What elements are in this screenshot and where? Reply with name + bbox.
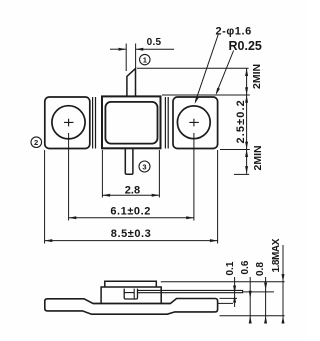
circled 2 — [31, 137, 42, 148]
svg-text:1.8MAX: 1.8MAX — [271, 238, 282, 272]
dim 0.1 vertical line — [234, 277, 236, 307]
dim 2MIN top vertical line — [246, 68, 248, 95]
ext flange center top short — [218, 302, 233, 304]
right flange plate — [173, 97, 218, 149]
dim 0.1 arrow down — [233, 286, 236, 294]
arrow up 2MIN bottom — [245, 149, 248, 157]
dim 0.6 arrow down — [249, 291, 252, 299]
svg-text:0.5: 0.5 — [147, 37, 162, 48]
dim 2.8 line — [102, 194, 159, 196]
dim 6.1 arrow left — [69, 216, 77, 219]
dim 8.5 line — [45, 240, 218, 242]
mounting hole left — [52, 106, 85, 139]
dim 8.5 arrow right — [210, 239, 218, 242]
mounting hole right — [177, 106, 210, 139]
svg-text:2.5±0.2: 2.5±0.2 — [235, 99, 247, 143]
side view lead 3 divider — [124, 289, 134, 299]
package mid body rect — [102, 96, 161, 148]
leader R0.25 — [217, 51, 234, 93]
side view cap lid — [105, 281, 157, 287]
dim 0.8 vertical line — [265, 277, 267, 320]
arrow down 2MIN bottom — [245, 166, 248, 174]
dim 0.8 arrow up — [264, 316, 267, 324]
dim 0.8 arrow down — [264, 283, 267, 291]
dim 1.8MAX arrow down — [282, 274, 285, 282]
side view lead 1 strip — [138, 290, 243, 292]
dim 2MIN bottom vertical line — [246, 149, 248, 174]
extension line flange bottom to right — [220, 149, 250, 151]
extension line lead width right — [135, 44, 137, 69]
arrow up 2.5 — [245, 95, 248, 103]
svg-text:2MIN: 2MIN — [251, 64, 263, 89]
extension line hole center right down — [193, 133, 195, 221]
ext cap top to right — [161, 281, 285, 283]
svg-text:6.1±0.2: 6.1±0.2 — [110, 206, 150, 218]
dim 6.1 line — [69, 217, 194, 219]
extension line flange top to right — [162, 94, 250, 96]
side view flange outline — [45, 299, 218, 315]
dim 2.8 arrow left — [102, 194, 110, 197]
left flange plate — [45, 97, 90, 149]
ext flange bottom to right — [220, 315, 285, 317]
dim 0.5 line right segment — [136, 48, 174, 50]
extension line bottom lead tip to right — [234, 173, 249, 175]
dim 0.5 arrow left — [119, 48, 127, 51]
extension line hole center left down — [68, 133, 70, 221]
ext flange end top to right — [220, 297, 238, 299]
dim 0.6 arrow up — [249, 316, 252, 324]
extension line lead tip to right — [137, 67, 249, 69]
svg-text:2: 2 — [34, 138, 38, 147]
junction lines right — [165, 97, 168, 149]
extension line lead width left — [125, 44, 127, 72]
side view flange top center segment — [93, 303, 170, 305]
dim 0.1 arrow up — [233, 295, 236, 303]
arrow up 2MIN top — [245, 68, 248, 76]
side view cap base — [101, 287, 161, 303]
hole center cross left — [64, 119, 74, 127]
circled 3 — [139, 161, 150, 172]
leader 2-phi1.6 arrowhead — [195, 97, 199, 105]
dim 6.1 arrow right — [186, 216, 194, 219]
extension line 2.8 right — [158, 150, 160, 198]
svg-text:2-φ1.6: 2-φ1.6 — [216, 26, 252, 38]
top lead — [127, 69, 136, 97]
arrow down 2.5 — [245, 142, 248, 150]
dim 2.5 vertical line — [246, 95, 248, 149]
svg-text:R0.25: R0.25 — [229, 39, 262, 53]
bottom lead — [125, 148, 133, 174]
dim 8.5 arrow left — [45, 239, 53, 242]
svg-text:2.8: 2.8 — [125, 185, 140, 197]
arrow down 2MIN top — [245, 87, 248, 95]
leader 2-phi1.6 — [195, 34, 218, 102]
svg-text:2MIN: 2MIN — [252, 145, 264, 170]
extension line flange right edge down — [217, 150, 219, 244]
svg-text:3: 3 — [142, 162, 146, 171]
svg-text:0.8: 0.8 — [255, 262, 266, 276]
dim 0.5 line left segment — [110, 48, 126, 50]
dim 1.8MAX arrow up — [282, 316, 285, 324]
dim 0.6 vertical line — [249, 277, 251, 320]
svg-text:0.6: 0.6 — [240, 260, 251, 274]
dim 2.8 arrow right — [152, 194, 160, 197]
svg-text:0.1: 0.1 — [225, 261, 236, 275]
dim 0.5 arrow right — [136, 48, 144, 51]
circled 1 — [140, 54, 150, 64]
ceramic cap rounded rect — [105, 102, 157, 144]
side view lead 3 end-on box — [124, 289, 137, 299]
svg-text:8.5±0.3: 8.5±0.3 — [111, 228, 151, 240]
ext lead top to right — [243, 291, 274, 293]
extension line 2.8 left — [101, 150, 103, 198]
leader R0.25 arrowhead — [216, 88, 220, 96]
extension line flange left edge down — [44, 150, 46, 244]
dim 1.8MAX vertical line — [282, 245, 284, 320]
junction lines left — [93, 97, 96, 149]
hole center cross right — [189, 119, 199, 127]
